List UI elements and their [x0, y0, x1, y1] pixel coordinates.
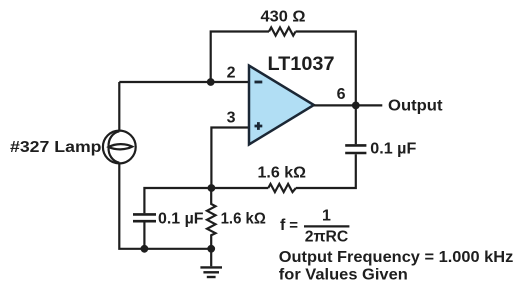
- op-amp plus input symbol: [255, 122, 263, 130]
- node: pin2 junction: [207, 78, 215, 86]
- resistor R2 1.6k horizontal (series leg) with wires: [211, 154, 355, 188]
- lamp DS1 #327 (circle with filament): [103, 131, 136, 164]
- svg-text:0.1 µF: 0.1 µF: [370, 141, 416, 158]
- capacitor C2 0.1uF (parallel leg, plates): [133, 214, 156, 221]
- svg-text:#327 Lamp: #327 Lamp: [10, 139, 102, 156]
- wire: output node down to capacitor C1 top plate: [355, 105, 357, 144]
- wire: lamp bottom to ground bus: [119, 163, 211, 248]
- resistor R3 1.6k vertical (parallel leg): [207, 188, 216, 249]
- ground symbol: [200, 249, 222, 277]
- svg-text:430 Ω: 430 Ω: [261, 9, 306, 26]
- op-amp minus input symbol: [255, 81, 263, 84]
- svg-text:0.1 µF: 0.1 µF: [158, 210, 204, 227]
- wire: pin2 horizontal from lamp branch to op-amp minus input: [119, 81, 249, 83]
- node: plus-input RC junction: [208, 184, 216, 192]
- svg-text:Output Frequency = 1.000 kHz: Output Frequency = 1.000 kHz: [279, 249, 514, 266]
- wire: output stub: [314, 104, 382, 106]
- wire: lamp branch vertical (pin2 node down to lamp): [118, 82, 120, 131]
- svg-text:3: 3: [227, 109, 236, 126]
- formula f = 1/(2piRC): [280, 208, 349, 246]
- node: ground junction: [207, 245, 215, 253]
- svg-text:1: 1: [322, 208, 331, 225]
- svg-text:LT1037: LT1037: [268, 53, 335, 75]
- wire: feedback loop top (node at pin2 up, across, down to output node): [211, 32, 356, 106]
- op-amp U1 LT1037 triangle: [249, 66, 314, 145]
- node: output junction: [352, 102, 360, 110]
- svg-text:6: 6: [337, 86, 346, 103]
- svg-text:1.6 kΩ: 1.6 kΩ: [258, 165, 307, 182]
- capacitor C1 0.1uF (output leg, plates): [345, 145, 366, 153]
- svg-text:1.6 kΩ: 1.6 kΩ: [221, 210, 266, 227]
- wire: capacitor C2 bottom lead to ground bus: [143, 222, 145, 248]
- svg-text:Output: Output: [388, 98, 443, 115]
- svg-text:2: 2: [227, 64, 236, 81]
- svg-text:=: =: [289, 217, 298, 234]
- svg-text:f: f: [280, 217, 286, 234]
- wire: mid node left to parallel capacitor branch: [144, 188, 211, 213]
- svg-text:2πRC: 2πRC: [305, 228, 349, 245]
- node: capacitor C2 ground junction: [141, 245, 149, 253]
- svg-text:for Values Given: for Values Given: [279, 266, 408, 283]
- resistor R1 430 ohm (zigzag, top feedback): [269, 27, 296, 35]
- wire: pin3 from plus input left and down to mid node: [211, 128, 249, 189]
